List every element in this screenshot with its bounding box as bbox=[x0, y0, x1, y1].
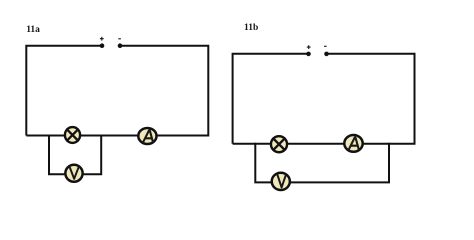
ammeter A1 circle 11a bbox=[138, 128, 156, 144]
wire bottom-left segment 11a bbox=[26, 135, 64, 137]
plus label 11a bbox=[100, 37, 104, 41]
voltmeter V2 letter 11b bbox=[277, 175, 286, 188]
voltmeter V1 letter 11a bbox=[70, 167, 79, 179]
battery terminal dot left 11a bbox=[100, 43, 105, 48]
ammeter A2 letter 11b bbox=[349, 137, 359, 149]
lamp X2 circle 11b bbox=[271, 136, 287, 152]
wire top-left 11b (left battery lead) bbox=[233, 54, 309, 144]
ammeter A2 circle 11b bbox=[344, 135, 362, 152]
wire top-right and right side 11b bbox=[327, 54, 415, 144]
svg-text:11b: 11b bbox=[244, 23, 258, 33]
lamp X1 circle 11a bbox=[65, 127, 80, 143]
lamp X1 cross 11a bbox=[67, 129, 78, 140]
plus label 11b bbox=[307, 45, 311, 49]
voltmeter branch right wire 11a bbox=[84, 135, 102, 175]
wire top-right and right side 11a bbox=[120, 46, 208, 136]
wire lamp-to-ammeter 11a bbox=[81, 135, 138, 137]
voltmeter V1 circle 11a bbox=[65, 165, 82, 182]
wire bottom-left segment 11b bbox=[233, 143, 271, 145]
wire top-left 11a (left battery lead) bbox=[26, 46, 102, 136]
minus label 11a bbox=[118, 38, 121, 40]
lamp X2 cross 11b bbox=[273, 139, 284, 150]
ammeter A1 letter 11a bbox=[143, 130, 153, 142]
battery terminal dot left 11b bbox=[306, 52, 311, 57]
wire lamp-to-ammeter 11b bbox=[288, 143, 345, 145]
voltmeter branch right wire 11b bbox=[291, 143, 390, 183]
voltmeter branch left wire 11b bbox=[255, 143, 271, 183]
voltmeter V2 circle 11b bbox=[272, 173, 290, 190]
svg-text:11a: 11a bbox=[26, 25, 40, 35]
minus label 11b bbox=[324, 45, 327, 47]
battery terminal dot right 11a bbox=[118, 43, 123, 48]
battery terminal dot right 11b bbox=[324, 52, 329, 57]
voltmeter branch left wire 11a bbox=[49, 135, 64, 175]
